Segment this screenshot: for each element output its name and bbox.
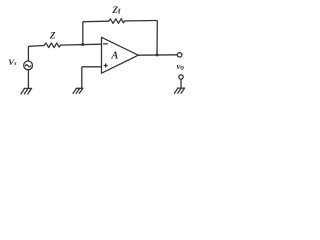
impedance ZF (109, 19, 125, 24)
terminal vo+ (177, 53, 182, 58)
wire (27, 70, 29, 88)
terminal vo- (179, 75, 183, 79)
ground (21, 88, 32, 94)
wire (28, 46, 44, 62)
ground (73, 88, 83, 93)
wire (82, 67, 102, 88)
node inverting input junction (81, 43, 84, 46)
svg-text:Vs: Vs (8, 57, 17, 67)
svg-text:Z: Z (49, 32, 56, 42)
impedance Z (44, 43, 61, 48)
wire (125, 21, 157, 56)
pin minus (103, 43, 107, 45)
wire (138, 54, 177, 56)
svg-text:A: A (110, 50, 118, 61)
wire (61, 43, 102, 46)
wire (180, 79, 182, 88)
ground (174, 88, 184, 93)
op-amp A (102, 37, 139, 73)
wire (83, 21, 109, 44)
svg-text:Zf: Zf (111, 6, 121, 16)
voltage source VS (24, 61, 33, 70)
node output junction (156, 53, 159, 56)
svg-text:vo: vo (177, 61, 185, 71)
pin plus (104, 64, 107, 67)
